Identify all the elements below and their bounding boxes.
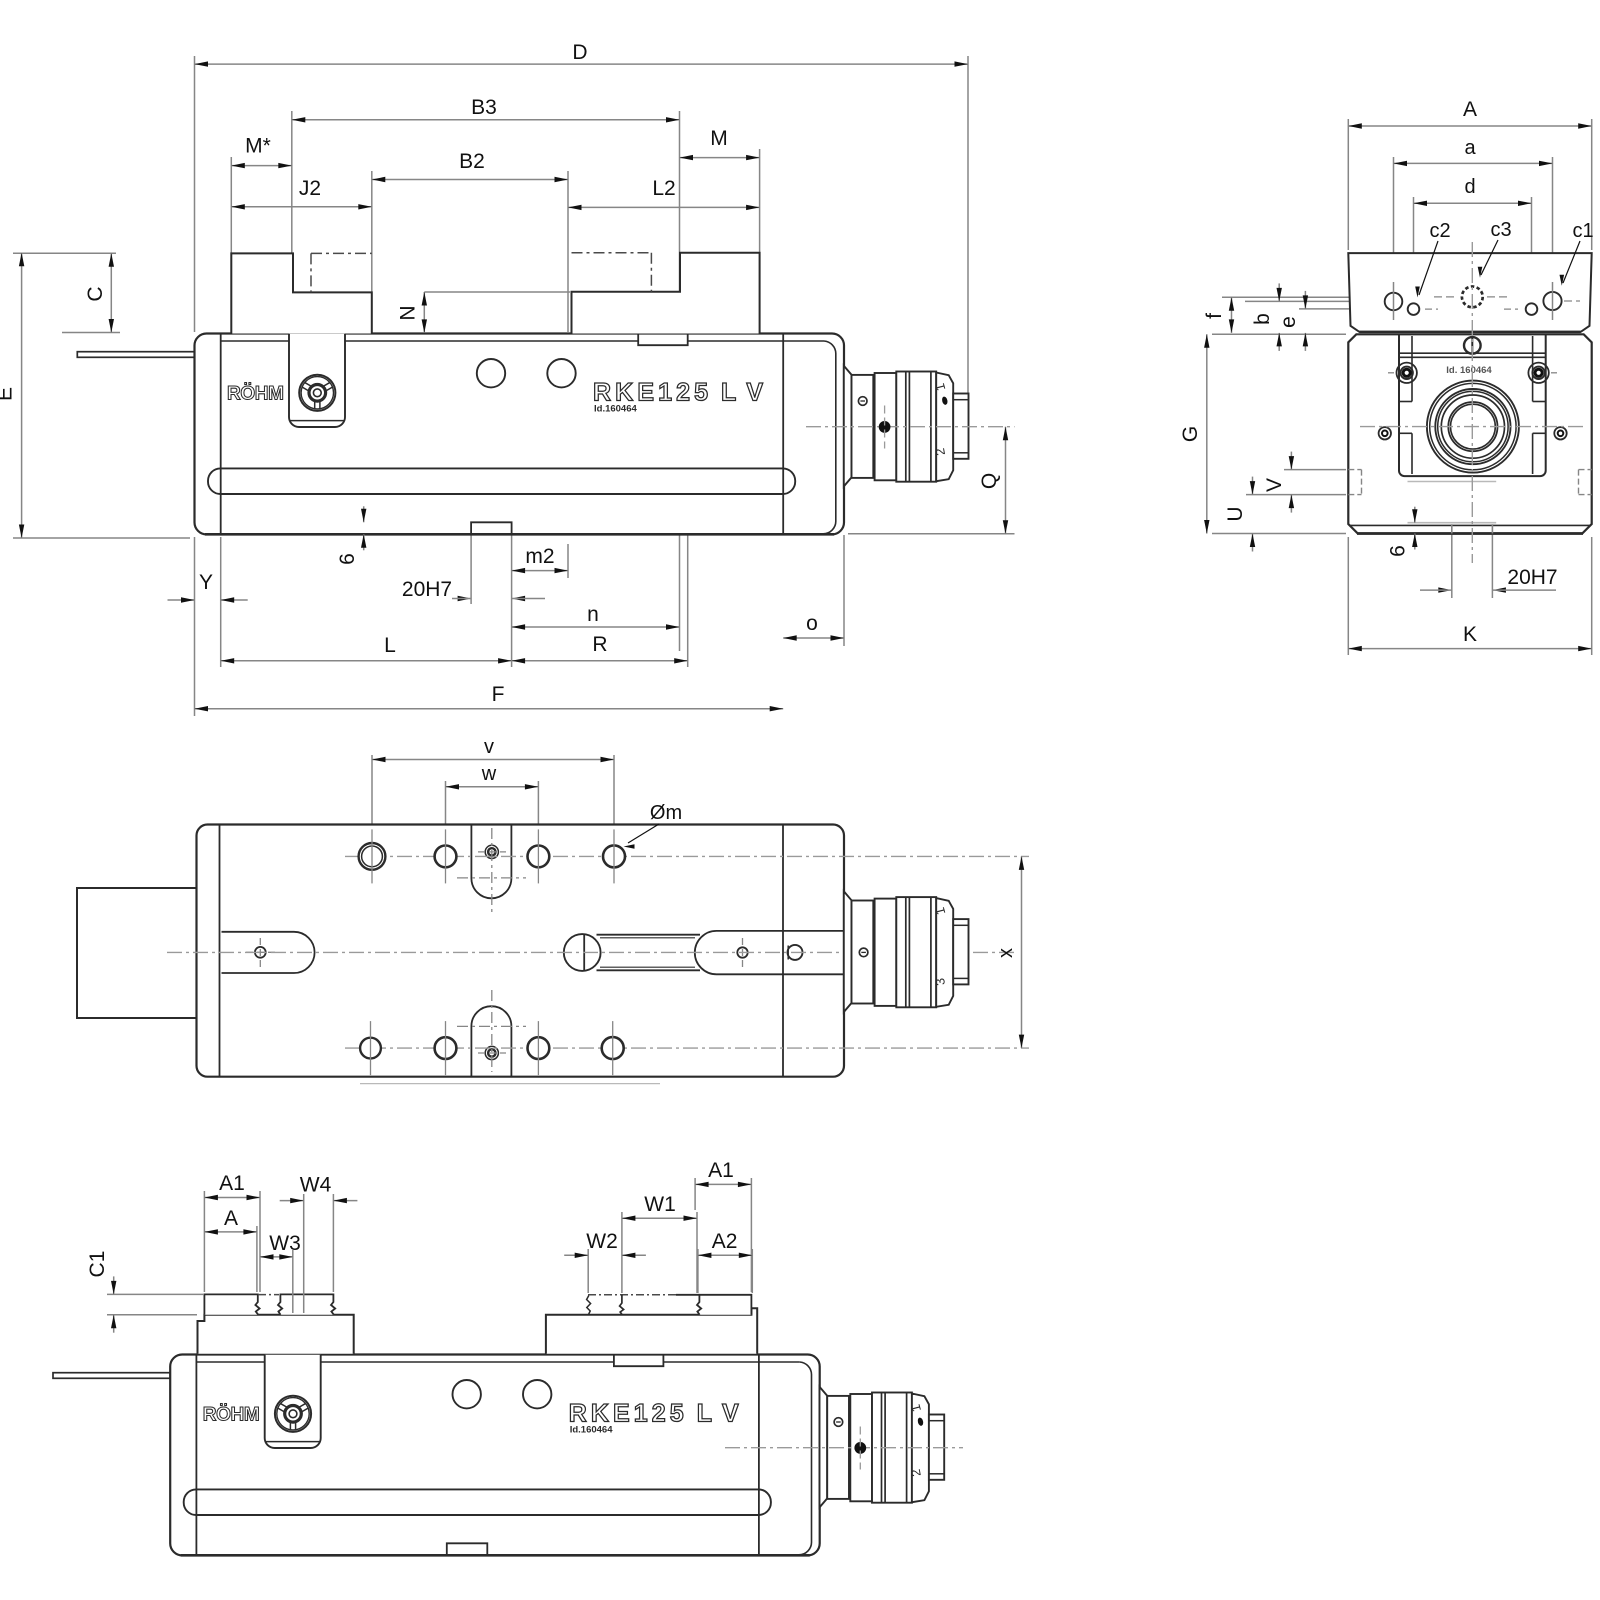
cap hole bbox=[788, 945, 803, 960]
dimension A2 bbox=[698, 1230, 752, 1258]
svg-text:V: V bbox=[1263, 478, 1286, 492]
dimension E bbox=[0, 253, 24, 538]
dimension A bbox=[1348, 98, 1591, 129]
side screw left bbox=[1379, 427, 1391, 439]
spindle channel bbox=[717, 930, 845, 932]
dimension L2 bbox=[568, 177, 760, 210]
svg-text:W3: W3 bbox=[269, 1232, 301, 1255]
svg-text:A1: A1 bbox=[219, 1172, 245, 1195]
left grip block B bbox=[278, 1294, 335, 1314]
dimension v bbox=[372, 736, 614, 762]
dimension M* bbox=[231, 135, 291, 169]
dimension Y bbox=[168, 571, 248, 603]
dimension 6 bbox=[336, 506, 366, 565]
dimension W2 bbox=[564, 1230, 646, 1258]
centerline (plan) bbox=[167, 951, 1014, 953]
dimension A1 bbox=[204, 1172, 260, 1200]
dimension 20H7 bbox=[1438, 566, 1557, 593]
svg-text:Y: Y bbox=[199, 571, 213, 594]
svg-text:20H7: 20H7 bbox=[402, 578, 452, 601]
dimension A1 bbox=[695, 1159, 751, 1187]
extension lines view2 bbox=[1212, 119, 1592, 655]
index pin bbox=[858, 397, 867, 406]
dimension F bbox=[195, 683, 784, 711]
spindle assembly (plan) bbox=[844, 891, 969, 1012]
right grip block bbox=[697, 1295, 751, 1315]
svg-text:B2: B2 bbox=[459, 150, 485, 173]
spindle centerline bbox=[806, 426, 1015, 428]
spindle centerline (lower) bbox=[725, 1447, 963, 1449]
side screw right bbox=[1554, 427, 1566, 439]
left jaw plate (view4) bbox=[198, 1315, 354, 1354]
svg-text:d: d bbox=[1464, 176, 1475, 198]
dimension C1 bbox=[86, 1251, 116, 1333]
svg-text:v: v bbox=[484, 736, 494, 758]
jaw plate hole left bbox=[1385, 293, 1403, 311]
svg-text:Q: Q bbox=[978, 473, 1001, 489]
svg-text:A: A bbox=[224, 1207, 238, 1230]
svg-text:c3: c3 bbox=[1490, 219, 1511, 241]
extension lines view4 bbox=[107, 1178, 752, 1315]
dimension D bbox=[195, 41, 969, 67]
svg-text:M: M bbox=[710, 127, 728, 150]
cavity opening bbox=[1399, 334, 1546, 476]
index pin (lower) bbox=[834, 1418, 843, 1427]
dimension f bbox=[1203, 297, 1234, 333]
svg-text:W1: W1 bbox=[644, 1193, 676, 1216]
svg-text:b: b bbox=[1251, 313, 1274, 325]
svg-text:f: f bbox=[1203, 313, 1226, 319]
svg-text:20H7: 20H7 bbox=[1507, 566, 1557, 589]
hidden side grooves bbox=[1348, 469, 1361, 471]
svg-text:U: U bbox=[1224, 506, 1247, 521]
svg-text:A1: A1 bbox=[708, 1159, 734, 1182]
svg-text:n: n bbox=[587, 603, 599, 626]
spindle assembly (lower) bbox=[820, 1387, 945, 1508]
right grip mid edge bbox=[620, 1295, 624, 1315]
dimension e bbox=[1277, 291, 1308, 351]
spindle bore rings bbox=[1427, 381, 1519, 473]
jaw plate (end view) bbox=[1348, 253, 1591, 332]
extension lines view3 bbox=[372, 755, 614, 845]
dimension K bbox=[1348, 623, 1591, 651]
U-slot top bbox=[471, 825, 511, 899]
screw slot bbox=[597, 934, 701, 936]
right grip phantom bbox=[588, 1294, 676, 1296]
leader c3 bbox=[1478, 219, 1512, 278]
leader diameter m bbox=[624, 802, 683, 849]
dimension a bbox=[1394, 137, 1553, 166]
dimension 6 bbox=[1387, 507, 1418, 557]
dimension W4 bbox=[280, 1174, 358, 1204]
hole vertical crosshairs bbox=[371, 829, 373, 883]
jaw plate hole c1 bbox=[1543, 292, 1561, 310]
svg-text:x: x bbox=[995, 948, 1017, 958]
jaw plate hole right small bbox=[1526, 303, 1538, 315]
centerlines bbox=[1360, 426, 1585, 428]
dimension d bbox=[1414, 176, 1532, 206]
movable jaw (right) bbox=[572, 253, 760, 334]
top clamp screw bbox=[1464, 337, 1481, 354]
svg-text:W2: W2 bbox=[586, 1230, 618, 1253]
spindle assembly bbox=[844, 366, 969, 487]
leader c1 bbox=[1560, 220, 1594, 286]
vise body (side view) bbox=[77, 334, 844, 535]
svg-text:N: N bbox=[397, 305, 420, 320]
carriage bar bbox=[1399, 352, 1546, 354]
bearing bolt left bbox=[1397, 363, 1417, 383]
bearing bolt right bbox=[1528, 363, 1548, 383]
svg-text:A: A bbox=[1463, 98, 1477, 121]
dimension N bbox=[397, 292, 428, 333]
svg-text:D: D bbox=[572, 41, 587, 64]
svg-text:F: F bbox=[492, 683, 505, 706]
dimension C bbox=[84, 253, 114, 332]
fixed jaw (left) bbox=[231, 253, 371, 333]
mounting holes bottom row bbox=[360, 1038, 381, 1059]
mounting hole row centerlines bbox=[345, 855, 1029, 857]
svg-text:C1: C1 bbox=[86, 1251, 109, 1278]
dimension 20H7 bbox=[402, 578, 525, 601]
svg-text:C: C bbox=[84, 286, 107, 301]
dimension G bbox=[1179, 334, 1210, 533]
svg-text:Øm: Øm bbox=[650, 802, 682, 824]
right jaw plate (view4) bbox=[546, 1308, 757, 1354]
vise body (lower side view) bbox=[53, 1355, 820, 1556]
mounting holes top row bbox=[359, 843, 386, 870]
svg-text:c1: c1 bbox=[1572, 220, 1593, 242]
svg-text:m2: m2 bbox=[525, 545, 554, 568]
dimension M bbox=[680, 127, 760, 160]
adjuster black dot bbox=[879, 422, 890, 433]
dimension B3 bbox=[292, 96, 680, 123]
dimension L bbox=[221, 634, 512, 664]
dimension B2 bbox=[372, 150, 568, 182]
svg-text:e: e bbox=[1277, 316, 1300, 328]
cavity inner steps bbox=[1411, 336, 1413, 402]
svg-text:B3: B3 bbox=[471, 96, 497, 119]
index pin (plan) bbox=[859, 948, 868, 957]
svg-text:L2: L2 bbox=[652, 177, 675, 200]
svg-text:G: G bbox=[1179, 426, 1202, 442]
svg-text:R: R bbox=[592, 633, 607, 656]
svg-text:K: K bbox=[1463, 623, 1477, 646]
svg-text:c2: c2 bbox=[1429, 220, 1450, 242]
adjuster black dot (lower) bbox=[855, 1443, 866, 1454]
svg-text:M*: M* bbox=[245, 135, 271, 158]
svg-text:L: L bbox=[384, 634, 396, 657]
svg-text:o: o bbox=[806, 612, 818, 635]
jaw plate hole c3 (center) bbox=[1462, 287, 1483, 308]
left grip block A bbox=[204, 1294, 259, 1314]
dimension A bbox=[204, 1207, 257, 1235]
dimension n bbox=[512, 603, 680, 630]
body (end view) bbox=[1348, 334, 1591, 533]
svg-text:w: w bbox=[481, 763, 497, 785]
left slot bbox=[222, 932, 315, 973]
dimension o bbox=[783, 612, 844, 641]
dimension R bbox=[512, 633, 688, 664]
dimension V bbox=[1263, 452, 1294, 513]
bottom keyway (end view) bbox=[1408, 522, 1497, 524]
dimension x bbox=[995, 856, 1024, 1048]
svg-text:Id. 160464: Id. 160464 bbox=[1446, 365, 1492, 376]
svg-text:A2: A2 bbox=[712, 1230, 738, 1253]
dial zero mark bbox=[941, 396, 948, 405]
dimension U bbox=[1224, 477, 1255, 552]
U-slot bottom bbox=[471, 1006, 511, 1077]
right grip wiggle left bbox=[587, 1296, 591, 1315]
dimension m2 bbox=[512, 545, 568, 573]
faint base chamfer line bbox=[360, 1083, 660, 1085]
svg-text:W4: W4 bbox=[300, 1174, 332, 1197]
extension lines view1 bbox=[13, 56, 1015, 716]
svg-text:6: 6 bbox=[336, 553, 359, 565]
svg-text:a: a bbox=[1464, 137, 1476, 159]
channel pin hole bbox=[737, 947, 747, 957]
dimension W3 bbox=[260, 1232, 301, 1260]
svg-text:J2: J2 bbox=[299, 177, 321, 200]
cap joint lines bbox=[219, 825, 221, 1077]
svg-text:E: E bbox=[0, 387, 17, 401]
left grip phantom bbox=[258, 1294, 279, 1296]
drive block (left) bbox=[77, 888, 197, 1018]
right grip partial top bbox=[676, 1294, 699, 1296]
dimension Q bbox=[978, 427, 1008, 534]
screw end circle bbox=[564, 934, 601, 971]
svg-text:6: 6 bbox=[1387, 545, 1410, 557]
jaw plate hole c2 bbox=[1408, 303, 1420, 315]
fixed jaw phantom position bbox=[311, 252, 372, 254]
dimension w bbox=[446, 763, 539, 790]
dimension J2 bbox=[231, 177, 371, 210]
dimension W1 bbox=[622, 1193, 697, 1221]
leader c2 bbox=[1415, 220, 1450, 298]
dimension b bbox=[1251, 283, 1282, 351]
movable jaw phantom position bbox=[572, 252, 652, 254]
body (plan) bbox=[197, 825, 845, 1077]
